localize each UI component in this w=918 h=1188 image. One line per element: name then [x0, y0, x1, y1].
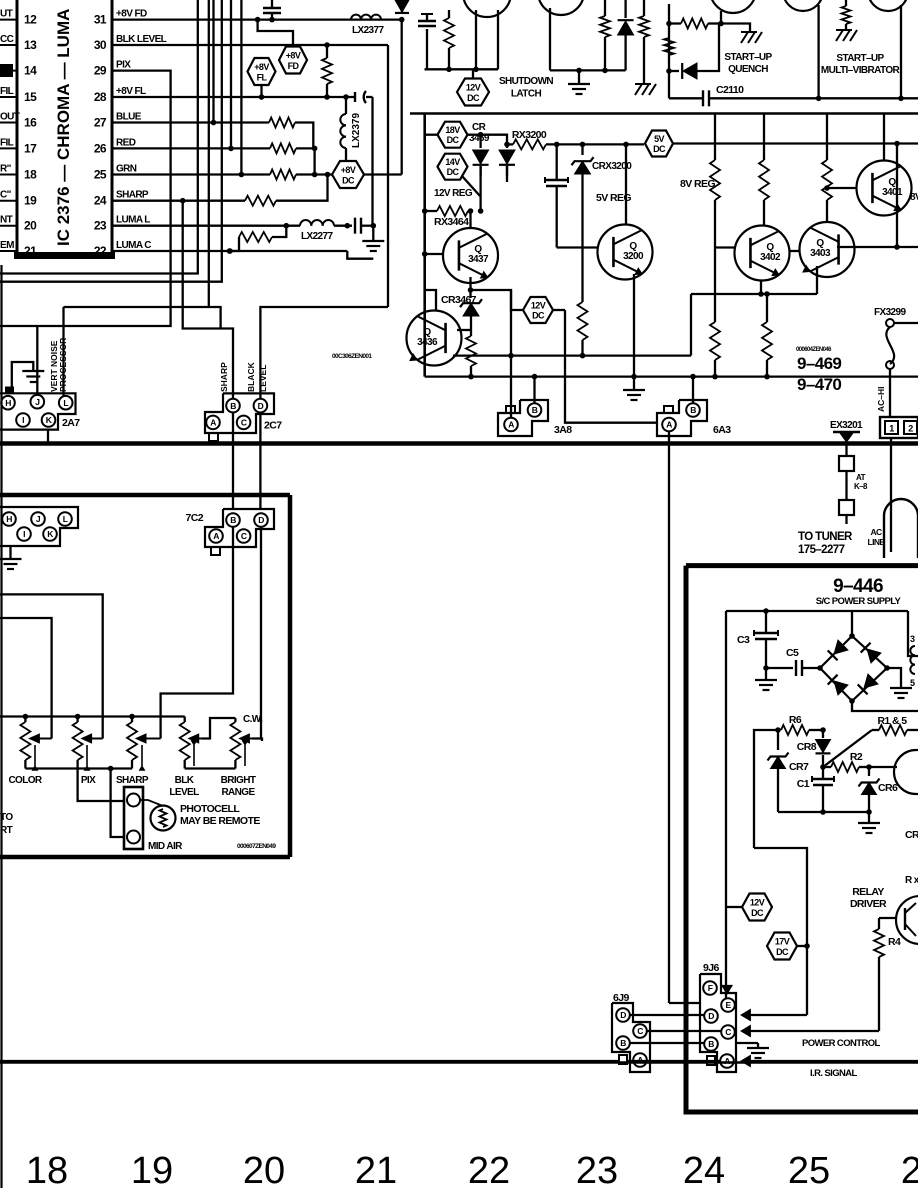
svg-text:MAY BE REMOTE: MAY BE REMOTE: [180, 815, 260, 827]
wire Q3437 base: [422, 251, 443, 257]
wire Q3436 base: [457, 329, 471, 331]
text 000604ZEN046: [796, 347, 832, 353]
wire top riser C: [208, 0, 210, 307]
hexagon 5V DC: [645, 131, 673, 157]
pin 14 pad: [0, 64, 13, 77]
svg-text:C.W.: C.W.: [243, 714, 263, 725]
capacitor (LUMA L): [355, 218, 376, 234]
wire SHARP bus crossing: [232, 412, 234, 509]
wire left sheet border: [0, 265, 2, 1188]
hexagon 14V DC: [438, 154, 481, 196]
diode CR(latch2): [618, 0, 634, 70]
svg-text:RANGE: RANGE: [221, 787, 255, 798]
wire row C feed POWER CONTROL: [741, 1025, 879, 1036]
wire pot feed 2: [0, 618, 52, 739]
wire +8V FD to hexagon: [258, 20, 293, 47]
wire bridge top to rail: [851, 611, 853, 636]
text 9-470: [797, 375, 841, 394]
svg-text:LUMA C: LUMA C: [116, 240, 151, 251]
text C2110: [716, 84, 744, 96]
svg-text:18V: 18V: [445, 125, 460, 135]
pin 28 label: [116, 86, 146, 97]
wire BLACK bus crossing: [259, 412, 261, 509]
svg-text:DC: DC: [653, 144, 666, 154]
wire latch1 leads: [425, 10, 499, 72]
hexagon 12V DC (ps): [742, 894, 772, 921]
zener CR3467: [460, 299, 482, 336]
svg-text:000607ZEN049: 000607ZEN049: [237, 843, 276, 850]
svg-text:B: B: [620, 1038, 626, 1048]
transistor Q3402: [735, 226, 790, 281]
svg-text:00C306ZEN001: 00C306ZEN001: [332, 353, 372, 360]
capacitor (latch1): [418, 14, 436, 69]
transistor Q3403: [800, 222, 855, 277]
wire Q3402 base: [715, 248, 735, 323]
wire main bus: [0, 441, 918, 446]
ground (2A7): [22, 371, 44, 382]
resistor R(8v-a2): [710, 322, 720, 379]
svg-text:R6: R6: [789, 714, 802, 726]
diode CR3469b: [499, 142, 515, 176]
svg-text:3A8: 3A8: [554, 424, 572, 436]
wire pot bottoms rail: [25, 766, 132, 772]
transistor Q(relay): [879, 896, 918, 944]
svg-text:NT: NT: [0, 215, 13, 226]
text 9J6: [703, 962, 719, 974]
svg-text:EM: EM: [0, 240, 14, 251]
wire pin26 RED: [112, 146, 270, 152]
wire 12VDC stub: [726, 906, 742, 908]
resistor R(latch1): [444, 10, 454, 69]
pin 23 label: [116, 215, 150, 226]
wire BLK-BRIGHT bottoms: [185, 767, 236, 769]
transistor Q(mv2) top: [868, 0, 908, 11]
pin 27 label: [116, 112, 142, 123]
text BLACK LEVEL (vert): [246, 361, 268, 392]
wire 9J6 A pad: [707, 1056, 715, 1065]
text TO TUNER 175-2277: [798, 531, 853, 556]
ground (CR6): [858, 812, 880, 833]
capacitor C2110: [669, 90, 918, 106]
text R1 & 5: [877, 715, 907, 727]
wire Q3403 base takeoff: [824, 185, 856, 191]
svg-text:H: H: [6, 514, 12, 524]
wire Q3436 collector: [425, 290, 436, 311]
connector 6J9 body: [612, 1003, 650, 1072]
capacitor (12vreg): [545, 144, 568, 247]
svg-text:2C7: 2C7: [264, 420, 282, 432]
wire ps left drop: [725, 611, 727, 986]
svg-text:26: 26: [94, 141, 107, 155]
resistor R(SHARP): [245, 175, 328, 206]
svg-text:175–2277: 175–2277: [798, 544, 845, 556]
wire row D feed: [741, 946, 807, 1021]
text AC LINE: [868, 527, 886, 547]
connector 9J6 body: [700, 974, 736, 1072]
text 9-446: [833, 576, 883, 597]
svg-text:DC: DC: [776, 947, 789, 957]
svg-text:14V: 14V: [445, 157, 460, 167]
svg-text:PROCESSOR: PROCESSOR: [58, 338, 68, 392]
hexagon +8V FL: [248, 58, 276, 97]
svg-text:CR: CR: [472, 122, 487, 133]
svg-text:20: 20: [243, 1150, 285, 1188]
svg-text:BLK: BLK: [175, 775, 195, 786]
resistor RX3464: [422, 206, 473, 216]
pin 29 label: [116, 60, 131, 71]
svg-text:+8V: +8V: [254, 62, 269, 72]
wire pin24 SHARP: [112, 198, 245, 204]
text CRX3200: [592, 161, 632, 172]
wire PIX bottom to MID AIR: [78, 769, 124, 802]
wire row B ground: [736, 1043, 758, 1048]
svg-text:FD: FD: [288, 61, 300, 71]
text AC-HI (vert): [876, 386, 886, 412]
connector 2C7 body: [205, 393, 282, 433]
svg-text:B: B: [708, 1039, 714, 1049]
resistor R(8v-b): [759, 114, 769, 227]
svg-text:FIL: FIL: [0, 86, 14, 97]
svg-text:I.R. SIGNAL: I.R. SIGNAL: [810, 1068, 858, 1079]
svg-text:B: B: [230, 401, 236, 411]
ground (C3): [755, 668, 777, 690]
svg-text:24: 24: [94, 194, 107, 208]
IC pin row 13/30: [0, 34, 107, 52]
wire 6J9 A pad: [619, 1055, 627, 1064]
pin 24 label: [116, 190, 149, 201]
text TO RT: [0, 812, 13, 836]
svg-text:22: 22: [94, 244, 107, 258]
svg-text:1: 1: [889, 424, 894, 434]
svg-text:SHARP: SHARP: [116, 775, 149, 786]
svg-text:AT: AT: [856, 473, 866, 482]
svg-text:CR7: CR7: [789, 761, 809, 773]
wire 2A7 J riser: [36, 326, 38, 395]
svg-text:LEVEL: LEVEL: [169, 787, 199, 798]
zener CR6: [859, 767, 898, 812]
potentiometer COLOR: [8, 717, 51, 787]
svg-text:23: 23: [94, 219, 107, 233]
wire BLKLEVEL to 2C7-D: [260, 307, 388, 399]
wire 6A3 A tab: [664, 406, 673, 413]
svg-text:16: 16: [24, 116, 37, 130]
svg-text:IC 2376 — CHROMA — LUMA: IC 2376 — CHROMA — LUMA: [54, 9, 73, 246]
hexagon 17V DC (ps): [767, 933, 810, 960]
svg-text:DC: DC: [342, 176, 355, 186]
svg-text:R2: R2: [850, 751, 863, 763]
capacitor C(top feedthrough): [263, 0, 281, 20]
resistor RX3200: [507, 139, 644, 149]
svg-text:DRIVER: DRIVER: [850, 898, 887, 910]
text 5V REG: [596, 192, 631, 204]
grid number 19: [131, 1150, 173, 1188]
svg-text:R x: R x: [905, 875, 918, 886]
svg-text:9–470: 9–470: [797, 375, 841, 394]
svg-text:BLACK: BLACK: [246, 361, 256, 392]
IC pin row 16/27: [0, 112, 107, 130]
svg-text:12V: 12V: [531, 301, 546, 311]
wire 3A8 B stub: [532, 374, 538, 403]
resistor R(8v-d): [822, 114, 832, 223]
wire ps top rail: [726, 608, 908, 614]
wire Q3401 emitter: [894, 209, 900, 250]
svg-text:D: D: [620, 1010, 626, 1020]
grid number 25: [788, 1150, 830, 1188]
transistor Q(latch2) top: [538, 0, 584, 15]
diode CR8: [797, 730, 831, 770]
connector 6J9 pins: [616, 1008, 647, 1067]
text FX3299: [874, 307, 906, 318]
connector 7C2 body: [186, 509, 274, 547]
wire EX3201 down: [845, 444, 847, 457]
wire Q3436 emitter line: [453, 353, 691, 359]
IC U1 IC2376 CHROMA-LUMA body: [14, 0, 115, 259]
svg-text:22: 22: [468, 1150, 510, 1188]
connector MID AIR: [124, 787, 183, 852]
chassis ground (quench): [741, 32, 762, 43]
IC pin row 12/31: [0, 9, 107, 27]
potentiometer PIX: [73, 717, 103, 787]
svg-text:LX2377: LX2377: [352, 25, 384, 36]
svg-text:A: A: [508, 420, 514, 430]
wire pin28 down to luma cap: [371, 97, 373, 226]
text S/C POWER SUPPLY: [816, 596, 902, 607]
svg-text:9–469: 9–469: [797, 354, 841, 373]
text PHOTOCELL MAY BE REMOTE: [180, 803, 260, 827]
svg-text:21: 21: [355, 1150, 397, 1188]
text SHARP (vert): [219, 362, 229, 392]
wire top riser A: [0, 0, 198, 274]
wire bridge bottom out: [852, 701, 918, 711]
svg-text:C5: C5: [786, 647, 799, 659]
svg-text:21: 21: [24, 244, 37, 258]
wire mv2 emitter: [900, 5, 902, 98]
text RELAY DRIVER: [850, 886, 887, 910]
resistor R(quench v): [664, 38, 674, 55]
pin 25 label: [116, 164, 137, 175]
wire Q3200 collector: [625, 144, 627, 225]
svg-text:13: 13: [24, 38, 37, 52]
svg-text:12V: 12V: [466, 83, 481, 93]
photocell: [140, 800, 176, 831]
capacitor (series on pin28): [355, 91, 373, 103]
wire 6A3 B stub: [690, 374, 696, 403]
svg-text:RX3200: RX3200: [512, 129, 547, 141]
svg-text:C: C: [241, 531, 247, 541]
wire pin30 BLK LEVEL: [112, 42, 388, 48]
chassis ground (latch2b): [635, 84, 656, 95]
hexagon +8V DC: [332, 161, 364, 188]
svg-text:25: 25: [788, 1150, 830, 1188]
resistor R(Q3436e): [466, 336, 476, 379]
hexagon 18V DC: [425, 122, 481, 148]
connector 2A7 body: [0, 393, 80, 429]
text I.R. SIGNAL: [810, 1068, 858, 1079]
wire LUMA L to cap: [334, 223, 352, 229]
connector 3A8 body: [498, 400, 572, 436]
resistor R(BLUE): [269, 118, 313, 149]
rule bottom: [0, 1061, 918, 1064]
svg-text:3: 3: [910, 634, 915, 644]
wire riser x388 BLK to node: [387, 45, 389, 307]
svg-text:3436: 3436: [417, 337, 438, 348]
text C.W.: [243, 714, 263, 725]
svg-text:FX3299: FX3299: [874, 307, 906, 318]
pin 31 label: [116, 9, 147, 20]
wire Q3401 collector: [883, 114, 885, 161]
capacitor C5: [766, 647, 820, 676]
resistor R4: [874, 918, 901, 1031]
svg-text:12: 12: [24, 13, 37, 27]
svg-text:15: 15: [24, 90, 37, 104]
svg-text:RED: RED: [116, 137, 136, 148]
transistor Q(ps): [869, 750, 918, 794]
ground (reg rail): [623, 377, 645, 400]
svg-text:18: 18: [26, 1150, 68, 1188]
svg-text:8V: 8V: [910, 192, 918, 203]
wire 2A7 K stub: [47, 430, 49, 444]
svg-text:RELAY: RELAY: [852, 886, 884, 898]
text CR5 partial: [905, 829, 918, 841]
svg-text:C3: C3: [737, 634, 750, 646]
svg-text:DC: DC: [447, 167, 460, 177]
svg-text:RT: RT: [0, 825, 13, 836]
wire pin27 BLUE: [112, 120, 269, 126]
svg-text:A: A: [666, 420, 672, 430]
connector 9J6 pins: [703, 981, 735, 1068]
svg-text:QUENCH: QUENCH: [728, 64, 768, 75]
svg-text:RX3464: RX3464: [434, 216, 469, 228]
svg-text:3403: 3403: [810, 248, 831, 259]
wire 5V rail right: [673, 141, 918, 147]
ground (HJL): [0, 546, 22, 569]
svg-text:C: C: [241, 418, 247, 428]
resistor R(8v-a): [710, 114, 720, 248]
IC pin row 15/28: [0, 86, 107, 104]
svg-text:L: L: [63, 398, 68, 408]
svg-text:BLK LEVEL: BLK LEVEL: [116, 34, 167, 45]
transistor Q3200: [598, 225, 653, 280]
svg-text:D: D: [258, 401, 264, 411]
pin 22 label: [116, 240, 151, 251]
wire +8VDC to diode node: [364, 20, 402, 175]
wire LUMA C tail: [347, 251, 373, 259]
text START-UP MULTI-VIBRATOR: [821, 53, 901, 76]
resistor R(RED): [270, 143, 317, 174]
svg-text:D: D: [708, 1011, 714, 1021]
wire mv1 emitter: [817, 5, 819, 98]
svg-text:3437: 3437: [468, 254, 489, 265]
text VERT NOISE PROCESSOR: [49, 338, 68, 392]
svg-text:UT: UT: [0, 9, 13, 20]
svg-text:PIX: PIX: [81, 775, 96, 786]
text 6J9: [613, 992, 629, 1004]
svg-text:26: 26: [901, 1150, 918, 1188]
svg-text:K–8: K–8: [854, 482, 868, 491]
svg-text:17V: 17V: [775, 937, 790, 947]
transistor Q3401: [837, 161, 918, 248]
svg-text:+8V: +8V: [341, 165, 356, 175]
grid number 22: [468, 1150, 510, 1188]
zener CRX3200: [572, 144, 594, 302]
connector AC plug: [880, 417, 918, 438]
hexagon 12V DC (latch): [457, 69, 489, 105]
svg-text:A: A: [210, 418, 216, 428]
svg-text:FIL: FIL: [0, 137, 14, 148]
connector AT K-8 squares: [839, 456, 854, 524]
svg-text:+8V FD: +8V FD: [116, 9, 147, 20]
ground (9J6 B): [747, 1048, 769, 1058]
connector (HJL/IK) body: [0, 507, 78, 546]
grid number 23: [576, 1150, 618, 1188]
svg-text:I: I: [23, 529, 25, 539]
svg-text:AC–HI: AC–HI: [876, 386, 886, 412]
wire 6A3 A left feed: [553, 310, 657, 423]
wire pin23 LUMA L: [112, 223, 300, 229]
wire E arrow: [722, 985, 732, 999]
wire row D: [630, 1014, 704, 1016]
box control board border: [0, 495, 290, 857]
svg-text:9–446: 9–446: [833, 576, 883, 597]
svg-text:B: B: [532, 405, 538, 415]
wire pin29 PIX: [0, 71, 171, 326]
hexagon 12V DC (reg): [523, 297, 553, 323]
resistor (BLK->+8VFL): [322, 45, 332, 97]
svg-text:I: I: [22, 415, 24, 425]
svg-text:B: B: [230, 515, 236, 525]
svg-text:GRN: GRN: [116, 164, 137, 175]
resistor R(mv): [842, 0, 851, 30]
ground (latch2): [568, 70, 590, 94]
box regulator border: [410, 114, 918, 377]
wire quench left riser: [668, 4, 670, 98]
svg-text:SHUTDOWN: SHUTDOWN: [499, 76, 553, 87]
svg-text:BRIGHT: BRIGHT: [221, 775, 256, 786]
svg-text:000604ZEN046: 000604ZEN046: [796, 347, 832, 353]
wire bridge right to ground: [887, 668, 901, 688]
svg-text:5V: 5V: [654, 134, 664, 144]
wire 7C2 D down: [260, 527, 262, 739]
diode CR(top) at LX2377: [395, 0, 409, 14]
wire Q3402 emitter: [691, 280, 817, 297]
connector 6A3 body: [657, 400, 731, 436]
svg-text:2A7: 2A7: [62, 417, 80, 429]
IC pin row 18/25: [0, 164, 107, 182]
svg-text:TO TUNER: TO TUNER: [798, 531, 853, 543]
svg-text:12V REG: 12V REG: [434, 188, 473, 199]
text Rx partial: [905, 875, 918, 886]
svg-text:SHARP: SHARP: [116, 190, 149, 201]
text RX3464: [434, 216, 469, 228]
svg-text:POWER CONTROL: POWER CONTROL: [802, 1038, 880, 1049]
svg-text:LX2277: LX2277: [301, 231, 333, 242]
svg-text:LUMA L: LUMA L: [116, 215, 150, 226]
transistor Q(mv1) top: [783, 0, 823, 11]
wire R6 branch lower: [754, 848, 807, 946]
svg-text:17: 17: [24, 141, 37, 155]
resistor R(latch2b): [639, 0, 649, 84]
text POWER CONTROL: [802, 1038, 880, 1049]
hexagon +8V FD: [279, 47, 307, 74]
chassis ground (mv): [836, 30, 857, 41]
ground (bridge): [890, 688, 912, 698]
inductor LX2277: [300, 220, 334, 242]
wire 3A8 A tab: [506, 406, 515, 413]
wiper diagonal: [823, 730, 872, 767]
svg-text:C: C: [725, 1027, 731, 1037]
svg-text:DC: DC: [467, 93, 480, 103]
svg-text:PIX: PIX: [116, 60, 131, 71]
